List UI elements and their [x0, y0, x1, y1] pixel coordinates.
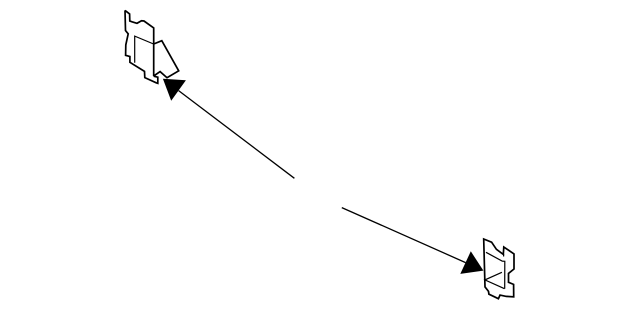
bracket part 2: interior upper fold line and vertical rib — [486, 252, 505, 288]
leader line 2 (to lower-right bracket) — [342, 208, 466, 263]
arrowhead 1 (points to upper-left bracket) — [163, 79, 186, 101]
bracket part 1 (upper-left): top edge and right vertical fold edge — [125, 10, 154, 76]
bracket part 2: notch inner vertical stub — [503, 254, 505, 257]
bracket part 2: interior V brace lines — [485, 272, 505, 288]
bracket part 2 (lower-right): outer contour — [484, 239, 514, 299]
arrowhead 2 (points to lower-right bracket) — [460, 251, 483, 274]
leader line 1 (to upper-left bracket) — [179, 91, 295, 179]
bracket part 1: interior panel fold lines — [135, 36, 154, 63]
bracket part 1: left edge, bottom edge and foot tab — [125, 10, 158, 83]
bracket part 1: right wing flange — [154, 41, 179, 78]
